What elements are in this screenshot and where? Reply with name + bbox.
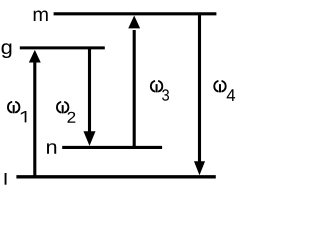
label m — [34, 11, 48, 21]
arrow omega4 shaft — [198, 14, 201, 163]
arrow omega4 head — [194, 161, 205, 175]
label omega2 subscript 2 — [68, 112, 76, 123]
label omega1 glyph — [8, 102, 19, 113]
label g — [2, 43, 12, 58]
label omega1 subscript 1 — [21, 111, 27, 122]
level m line — [54, 12, 217, 15]
level g line — [20, 46, 105, 49]
label n — [47, 143, 56, 154]
arrow omega2 shaft — [88, 48, 91, 133]
label omega3 subscript 3 — [162, 89, 169, 100]
label l — [5, 173, 7, 185]
arrow omega1 head — [29, 50, 41, 63]
level l line — [16, 175, 215, 178]
level n line — [62, 146, 162, 149]
arrow omega3 head — [128, 16, 140, 29]
arrow omega1 shaft — [33, 60, 36, 177]
label omega2 glyph — [57, 102, 68, 113]
label omega4 subscript 4 — [227, 89, 235, 101]
label omega3 glyph — [151, 81, 162, 92]
arrow omega2 head — [83, 131, 95, 146]
label omega4 glyph — [214, 81, 225, 92]
arrow omega3 shaft — [133, 30, 136, 147]
